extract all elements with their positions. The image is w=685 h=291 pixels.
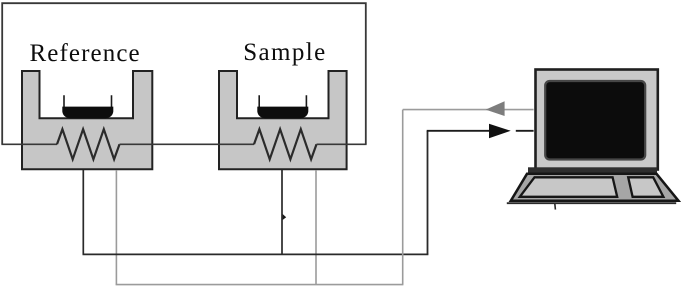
arrowhead gray (out of computer) bbox=[486, 101, 505, 116]
computer screen bbox=[545, 81, 645, 160]
reference pan sample (black) bbox=[62, 107, 113, 119]
wire: frame bottom middle segment bbox=[120, 143, 255, 145]
computer keyboard key panel bbox=[520, 177, 617, 197]
sample pan walls bbox=[259, 95, 306, 107]
wire: frame bottom left segment bbox=[1, 143, 57, 145]
wire: black bottom bus bbox=[83, 253, 429, 255]
wire: black dash at monitor bbox=[516, 130, 534, 132]
resistor heater (sample) bbox=[254, 129, 317, 159]
reference furnace block bbox=[22, 71, 152, 169]
resistor heater (reference) bbox=[57, 129, 120, 159]
svg-text:Sample: Sample bbox=[243, 39, 326, 66]
junction tick on sample black lead bbox=[283, 214, 287, 220]
furnace enclosure frame bbox=[2, 3, 366, 144]
wire: reference gray lead down bbox=[115, 170, 117, 285]
computer side panel bbox=[628, 177, 663, 197]
computer front lip bbox=[507, 202, 676, 204]
wire: gray riser to computer bbox=[402, 110, 404, 285]
svg-text:Reference: Reference bbox=[30, 40, 141, 67]
computer hinge band bbox=[528, 167, 657, 174]
computer keyboard base bbox=[511, 174, 679, 201]
arrowhead black (into computer) bbox=[489, 124, 511, 138]
wire: frame bottom right segment bbox=[317, 143, 367, 145]
wire: reference black lead down bbox=[82, 170, 84, 254]
sample pan sample (black) bbox=[257, 107, 308, 119]
wire: sample black lead down bbox=[281, 170, 283, 254]
wire: black riser to computer bbox=[427, 131, 429, 255]
reference pan walls bbox=[64, 95, 112, 107]
computer front tick bbox=[554, 204, 557, 210]
computer monitor bezel bbox=[536, 70, 658, 170]
wire: black signal line to computer bbox=[427, 130, 490, 132]
wire: gray signal line from computer bbox=[403, 109, 534, 111]
sample furnace block bbox=[219, 71, 347, 169]
wire: gray bottom bus bbox=[116, 284, 404, 286]
wire: sample gray lead down bbox=[315, 170, 317, 285]
